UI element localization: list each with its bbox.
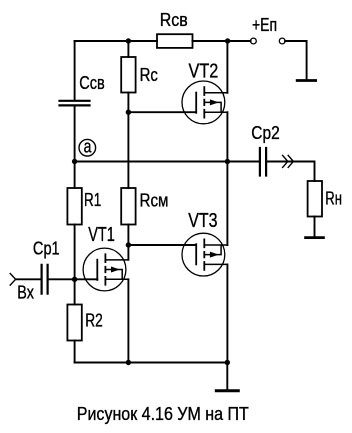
resistor Rсв body [157, 34, 193, 48]
svg-text:а: а [84, 137, 93, 157]
wire top rail left segment [75, 40, 157, 42]
wire Rн to ground [314, 217, 316, 237]
wire left vertical from rail to Ссв [74, 41, 76, 100]
svg-text:Ср2: Ср2 [251, 123, 279, 143]
wire VT3 source to bottom rail [226, 264, 228, 362]
wire VT2 drain to rail [226, 41, 228, 93]
junction dot Rc top [126, 38, 131, 43]
svg-text:Вх: Вх [17, 283, 34, 303]
svg-text:Rс: Rс [140, 65, 158, 85]
ground (supply) [297, 79, 315, 82]
junction dot output node / VT2 source [225, 159, 230, 164]
wire Rсм bottom to VT1 drain node [127, 225, 129, 246]
wire node a to R1 [74, 162, 76, 189]
svg-text:Rн: Rн [325, 189, 342, 209]
wire gate node to R2 [74, 279, 76, 304]
junction dot VT2 gate node [126, 110, 131, 115]
svg-text:Rсв: Rсв [160, 10, 188, 30]
wire VT2 source to output node [226, 112, 228, 161]
junction dot top rail / VT2 drain [225, 38, 230, 43]
terminal circle 2 (+Еп return) [279, 38, 285, 44]
wire VT1 gate to R1/R2 node [75, 278, 98, 280]
wire rail to Rc [127, 41, 129, 57]
wire Ср2 to Rн corner [267, 162, 314, 182]
wire R2 to bottom rail [74, 341, 76, 363]
wire from terminal 2 to supply ground [285, 41, 307, 80]
wire Ср1 to gate node [49, 278, 75, 280]
svg-text:+Еп: +Еп [252, 15, 277, 35]
svg-text:Ср1: Ср1 [33, 238, 60, 258]
junction dot VT1 drain node [126, 242, 131, 247]
resistor R1 body [67, 188, 81, 225]
junction dot bottom rail VT1 source [126, 360, 131, 365]
transistor VT1 [83, 248, 128, 291]
ground (main) [216, 389, 238, 392]
wire R1 bottom to gate node [74, 225, 76, 280]
svg-text:R1: R1 [84, 190, 101, 210]
svg-text:VT2: VT2 [189, 61, 219, 83]
resistor Rн body [308, 181, 322, 217]
transistor VT2 [182, 81, 227, 124]
wire VT1 source to bottom rail [127, 279, 129, 362]
ground (Rн) [306, 236, 324, 239]
wire VT3 drain to output node [226, 162, 228, 246]
capacitor Ср2 [260, 148, 266, 176]
svg-text:Ссв: Ссв [79, 73, 105, 93]
junction dot VT1 gate node [72, 277, 77, 282]
wire bottom rail [75, 362, 228, 364]
svg-text:VT3: VT3 [188, 210, 217, 232]
terminal circle 1 (+Еп) [251, 38, 257, 44]
resistor R2 body [67, 305, 81, 341]
wire output node line [75, 161, 228, 163]
junction dot bottom rail VT3 source [225, 360, 230, 365]
wire input to Ср1 [16, 278, 41, 280]
svg-text:VT1: VT1 [88, 224, 115, 246]
wire output node to Ср2 [227, 161, 259, 163]
node a symbol [79, 137, 96, 157]
capacitor Ср1 [42, 265, 48, 294]
output arrow chevrons [283, 155, 294, 167]
resistor Rc body [121, 57, 135, 93]
junction dot node a left [72, 159, 77, 164]
svg-text:Рисунок 4.16 УМ на ПТ: Рисунок 4.16 УМ на ПТ [77, 404, 249, 424]
wire to main ground [226, 363, 228, 390]
wire from Ссв to node a line [74, 106, 76, 161]
wire VT1 drain node to VT3 gate [128, 244, 196, 246]
wire VT1 drain [127, 245, 129, 260]
wire gate node down to Rсм (crossing output line, no dot) [127, 112, 129, 188]
wire to VT2 gate [128, 111, 196, 113]
transistor VT3 [182, 233, 227, 276]
input chevron Вх [10, 274, 15, 286]
capacitor Ссв [60, 101, 90, 106]
svg-text:R2: R2 [85, 310, 103, 330]
wire top rail right segment to terminal [193, 40, 251, 42]
resistor Rсм body [121, 188, 135, 225]
svg-text:Rсм: Rсм [140, 191, 169, 211]
wire Rc bottom to gate node [127, 93, 129, 113]
